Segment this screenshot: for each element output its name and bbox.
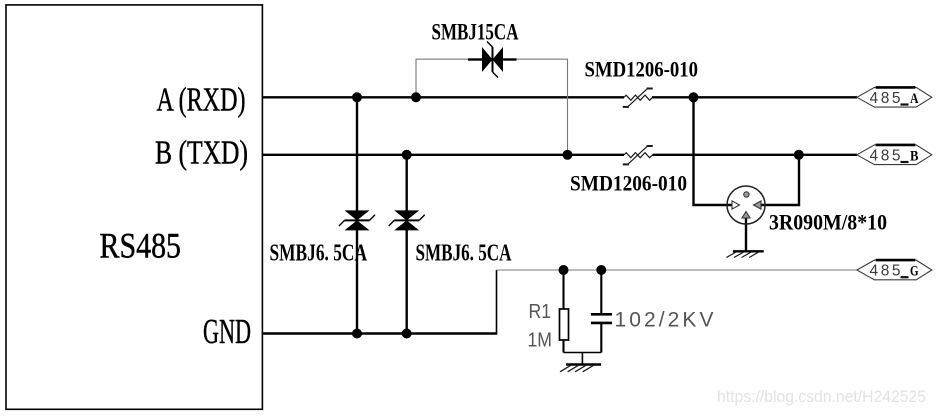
svg-text:102/2KV: 102/2KV [615, 309, 714, 332]
svg-text:SMBJ6. 5CA: SMBJ6. 5CA [416, 240, 512, 267]
svg-text:SMD1206-010: SMD1206-010 [585, 57, 699, 82]
svg-text:G: G [910, 264, 919, 280]
svg-text:485: 485 [870, 263, 901, 280]
svg-text:485: 485 [870, 90, 901, 107]
svg-text:3R090M/8*10: 3R090M/8*10 [769, 210, 887, 235]
svg-text:1M: 1M [528, 330, 553, 352]
svg-text:A: A [910, 91, 919, 107]
svg-text:B: B [910, 148, 919, 164]
svg-text:SMD1206-010: SMD1206-010 [570, 171, 687, 196]
svg-text:SMBJ15CA: SMBJ15CA [432, 20, 519, 46]
svg-text:SMBJ6. 5CA: SMBJ6. 5CA [270, 240, 368, 267]
svg-text:https://blog.csdn.net/H242525: https://blog.csdn.net/H242525 [717, 388, 926, 406]
svg-text:GND: GND [203, 312, 251, 351]
svg-text:A (RXD): A (RXD) [157, 82, 246, 119]
svg-text:RS485: RS485 [100, 226, 182, 266]
svg-text:B (TXD): B (TXD) [155, 135, 248, 172]
svg-text:485: 485 [870, 147, 901, 164]
svg-text:R1: R1 [529, 301, 552, 323]
